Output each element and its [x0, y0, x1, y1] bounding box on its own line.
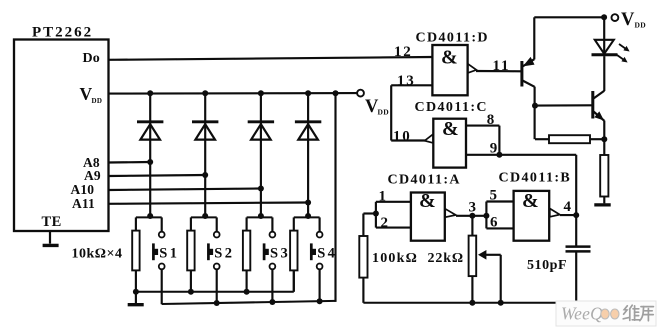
svg-text:4: 4: [564, 199, 572, 215]
svg-text:PT2262: PT2262: [32, 25, 93, 41]
svg-text:22kΩ: 22kΩ: [428, 251, 464, 266]
svg-text:A10: A10: [71, 182, 95, 197]
svg-text:&: &: [522, 190, 539, 212]
svg-text:WeeQ: WeeQ: [561, 304, 603, 324]
svg-text:12: 12: [394, 44, 413, 60]
svg-text:1: 1: [379, 189, 387, 205]
svg-text:CD4011:D: CD4011:D: [416, 31, 489, 46]
svg-text:100kΩ: 100kΩ: [372, 251, 418, 266]
svg-text:DD: DD: [378, 108, 390, 117]
svg-text:10kΩ×4: 10kΩ×4: [72, 247, 123, 262]
svg-text:S2: S2: [214, 245, 234, 261]
svg-text:Do: Do: [83, 51, 101, 66]
svg-text:S1: S1: [159, 245, 179, 261]
svg-text:510pF: 510pF: [527, 258, 567, 273]
svg-text:CD4011:A: CD4011:A: [388, 173, 461, 188]
svg-text:CD4011:C: CD4011:C: [415, 100, 488, 115]
svg-text:6: 6: [490, 215, 498, 231]
svg-text:TE: TE: [42, 214, 62, 230]
svg-text:&: &: [441, 46, 458, 68]
svg-text:8: 8: [487, 112, 495, 128]
svg-text:&: &: [442, 118, 459, 140]
svg-text:&: &: [419, 190, 436, 212]
svg-text:S4: S4: [317, 245, 337, 261]
svg-text:DD: DD: [635, 20, 647, 29]
svg-text:10: 10: [393, 128, 412, 144]
svg-text:2: 2: [381, 215, 389, 231]
svg-text:CD4011:B: CD4011:B: [499, 171, 572, 186]
svg-text:5: 5: [490, 187, 498, 203]
svg-text:9: 9: [490, 140, 498, 156]
svg-text:S3: S3: [270, 245, 290, 261]
svg-text:11: 11: [493, 58, 511, 74]
svg-text:13: 13: [397, 73, 416, 89]
svg-text:DD: DD: [92, 97, 103, 105]
svg-text:V: V: [621, 10, 635, 30]
svg-text:A11: A11: [72, 196, 95, 211]
svg-text:A9: A9: [84, 168, 101, 183]
